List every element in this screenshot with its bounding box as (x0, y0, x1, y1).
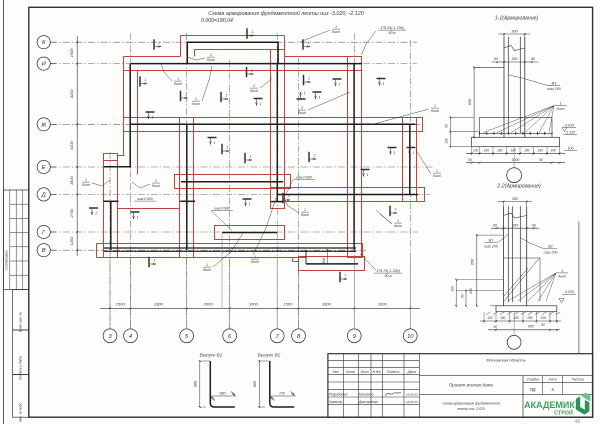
svg-text:бшт: бшт (250, 89, 258, 93)
svg-text:1: 1 (308, 41, 310, 45)
svg-text:Подпись и дата: Подпись и дата (19, 356, 23, 380)
shag labels (134, 176, 315, 231)
red strip V wall (97, 244, 363, 262)
svg-text:1: 1 (226, 94, 228, 98)
detail 1-1 bottom bar dots (480, 132, 553, 135)
svg-text:18.09.23: 18.09.23 (406, 393, 418, 397)
svg-text:Е: Е (42, 165, 46, 171)
svg-text:шаг t=900: шаг t=900 (214, 207, 230, 211)
svg-text:180: 180 (500, 316, 506, 320)
detail 1-1 title (495, 16, 539, 22)
elevation label top right (362, 26, 407, 55)
svg-text:60: 60 (494, 57, 498, 61)
elevation label bottom right (360, 254, 402, 278)
red strip axis9 (348, 57, 362, 258)
svg-text:-2.120: -2.120 (565, 131, 575, 135)
svg-text:В1: В1 (489, 239, 494, 243)
horizontal grid axis lines (51, 42, 435, 250)
wall axis7 (276, 64, 278, 202)
vypusk B2 shape (270, 361, 295, 407)
svg-text:720: 720 (279, 391, 285, 395)
svg-text:1500: 1500 (283, 302, 293, 307)
svg-text:бшт: бшт (431, 109, 439, 113)
svg-text:60: 60 (493, 325, 497, 329)
detail 2-2 left stacked dims (451, 279, 503, 307)
svg-text:1: 1 (367, 173, 369, 177)
left margin approval table (4, 190, 29, 290)
svg-text:100: 100 (541, 316, 547, 320)
svg-text:1: 1 (304, 208, 306, 212)
dim 500 at B step (322, 249, 328, 265)
svg-text:180: 180 (484, 149, 490, 153)
svg-text:Изм: Изм (333, 370, 340, 374)
vypusk B1 dims (194, 360, 236, 408)
svg-text:3300: 3300 (249, 302, 259, 307)
wall cap axis7 bottom (271, 201, 284, 203)
wall V lower offset (306, 250, 358, 264)
detail 2-2 hatching (486, 312, 561, 315)
detail 2-2 rebar bars (508, 206, 520, 302)
svg-text:бшт: бшт (207, 58, 215, 62)
svg-text:бшт: бшт (82, 183, 90, 187)
svg-text:1800: 1800 (69, 175, 74, 185)
svg-text:178.75(-1.290): 178.75(-1.290) (376, 269, 400, 273)
svg-text:1: 1 (436, 169, 438, 173)
title block staff rows (329, 393, 418, 405)
svg-text:60: 60 (493, 223, 497, 227)
detail 1-1 rebar bars (508, 37, 520, 134)
svg-text:бшт: бшт (174, 82, 182, 86)
svg-text:1: 1 (301, 106, 303, 110)
svg-text:1: 1 (413, 151, 415, 155)
svg-text:1: 1 (214, 141, 216, 145)
svg-text:4200: 4200 (69, 89, 74, 99)
svg-text:Выпуск В1: Выпуск В1 (200, 353, 223, 358)
svg-text:бшт: бшт (557, 107, 565, 111)
svg-text:300: 300 (451, 286, 455, 292)
red strip axis7 (271, 50, 285, 209)
svg-text:К: К (42, 40, 46, 46)
detail 1-1 footing (472, 137, 560, 146)
svg-text:1: 1 (152, 116, 154, 120)
drawing title text (201, 10, 364, 24)
svg-text:1: 1 (308, 77, 310, 81)
svg-text:1: 1 (304, 92, 306, 96)
svg-text:Лист: Лист (547, 378, 557, 382)
detail 2-2 title (496, 184, 541, 190)
svg-text:бшт: бшт (298, 111, 306, 115)
stage list cells (523, 376, 593, 395)
detail 2-2 bent bars (504, 258, 540, 301)
svg-text:18.09.23: 18.09.23 (406, 400, 418, 404)
svg-text:бшт: бшт (301, 213, 309, 217)
svg-text:3900: 3900 (322, 302, 332, 307)
svg-text:1: 1 (227, 146, 229, 150)
svg-text:Схема армирования фундаментной: Схема армирования фундаментной (442, 402, 500, 406)
detail 2-2 footing (490, 306, 557, 312)
svg-text:Проект жилого дома: Проект жилого дома (449, 383, 494, 388)
column divider line x579 (578, 222, 580, 354)
svg-text:бшт: бшт (192, 102, 200, 106)
svg-text:шаг 200: шаг 200 (484, 244, 498, 248)
wall cap axis5 top (180, 200, 195, 202)
svg-text:бшт: бшт (332, 30, 340, 34)
svg-text:50: 50 (445, 124, 449, 128)
red strip K wall (181, 36, 285, 57)
wall axis10 (409, 124, 411, 194)
detail 1-1 left dim 650 (468, 66, 504, 138)
svg-text:60: 60 (532, 223, 536, 227)
signature (385, 392, 401, 396)
wall step E (104, 166, 131, 168)
detail 1-1 label 1 6sht with fan (483, 102, 567, 133)
svg-text:Листов: Листов (571, 378, 584, 382)
wall D axis (277, 194, 418, 196)
detail 2-2 elevation -3.020 (559, 290, 576, 302)
detail 1-1 dim 60 180 60 (492, 57, 539, 63)
svg-text:Московская область: Московская область (486, 358, 525, 363)
detail 2-2 left dim 650 (471, 234, 504, 307)
svg-text:180: 180 (512, 223, 518, 227)
left margin box podpis (13, 330, 29, 380)
svg-text:Михеенко: Михеенко (359, 393, 374, 397)
title block header texts (333, 370, 417, 374)
left dimension line (69, 36, 78, 256)
vypusk B2 dims (253, 360, 295, 408)
svg-text:880: 880 (253, 381, 257, 387)
svg-text:60: 60 (531, 57, 535, 61)
svg-text:100: 100 (487, 316, 493, 320)
extension lines bottom (110, 233, 410, 329)
wall G axis (222, 232, 277, 234)
red strip axis3 (104, 154, 118, 258)
svg-text:1: 1 (252, 30, 254, 34)
wall axis4 (129, 64, 131, 167)
svg-text:1: 1 (397, 219, 399, 223)
svg-text:А3: А3 (573, 419, 580, 424)
red strip axis5 (180, 118, 194, 258)
svg-text:6шт: 6шт (433, 174, 441, 178)
svg-text:0.000=180,04: 0.000=180,04 (201, 18, 233, 24)
wall K axis (187, 41, 278, 43)
svg-text:СТРОЙ: СТРОЙ (554, 409, 573, 417)
svg-text:4: 4 (129, 334, 132, 340)
svg-text:1: 1 (339, 83, 341, 87)
detail 1-1 top dim 300 (499, 29, 531, 37)
svg-text:100: 100 (551, 149, 557, 153)
vypusk B1 title (200, 353, 223, 358)
svg-text:Взам. инв. №: Взам. инв. № (19, 312, 23, 332)
detail 2-2 dim 60 180 60 (491, 223, 539, 229)
wall K right end vertical (277, 41, 279, 63)
svg-text:Лист: Лист (359, 370, 369, 374)
red strip mid wall y181 (175, 175, 291, 189)
bottom dimension line (100, 302, 420, 310)
svg-text:Схема армирования фундаментной: Схема армирования фундаментной ленты низ… (208, 10, 363, 17)
svg-text:Заказчик: Заказчик (329, 400, 343, 404)
svg-text:N док: N док (373, 370, 382, 374)
svg-text:4шт: 4шт (558, 275, 566, 279)
svg-text:Дмитриенко: Дмитриенко (358, 400, 378, 404)
wall axis5 (186, 124, 188, 250)
svg-text:3900: 3900 (378, 302, 388, 307)
svg-text:180: 180 (527, 316, 533, 320)
svg-text:Выпуск В2: Выпуск В2 (258, 353, 281, 358)
svg-text:250: 250 (469, 288, 473, 295)
wall Zh axis (131, 123, 416, 125)
red strip axis4 (124, 57, 138, 175)
red strip Zh wall (124, 118, 423, 132)
red strip I wall (124, 57, 362, 71)
svg-text:1: 1 (253, 84, 255, 88)
detail 2-2 label B1 (484, 234, 508, 248)
svg-text:300: 300 (511, 29, 518, 33)
svg-text:3000: 3000 (204, 302, 214, 307)
svg-text:Согласовано: Согласовано (4, 250, 8, 270)
svg-text:1: 1 (85, 178, 87, 182)
svg-text:180: 180 (514, 316, 520, 320)
detail 2-2 bottom dims row1 (480, 312, 561, 323)
svg-text:880: 880 (194, 381, 198, 387)
vypusk B1 shape (210, 361, 235, 407)
svg-text:100: 100 (445, 138, 449, 144)
svg-text:1: 1 (434, 104, 436, 108)
detail 1-1 mesh zone (480, 117, 553, 137)
svg-text:РД: РД (530, 387, 536, 392)
plan annotation labels (161, 64, 182, 86)
title block left columns (328, 354, 420, 418)
svg-text:1: 1 (154, 259, 156, 263)
svg-text:Дата: Дата (406, 370, 416, 374)
detail 2-2 wall (504, 206, 527, 305)
svg-text:бшт: бшт (251, 260, 259, 264)
svg-text:100: 100 (568, 147, 574, 151)
svg-text:3900: 3900 (154, 302, 164, 307)
svg-text:1: 1 (137, 216, 139, 220)
svg-text:1: 1 (210, 53, 212, 57)
svg-text:1000: 1000 (512, 158, 520, 162)
section and rebar marks on plan (154, 39, 161, 49)
svg-text:-3.020: -3.020 (564, 290, 574, 294)
wall V axis (104, 248, 356, 251)
svg-text:180: 180 (511, 57, 517, 61)
svg-text:Д: Д (41, 192, 46, 198)
title block right section (419, 358, 592, 418)
detail 1-1 mesh shag label (564, 147, 577, 151)
detail 1-1 left small dims (445, 116, 480, 147)
svg-text:1: 1 (319, 96, 321, 100)
wall axis3 lower (110, 201, 112, 250)
svg-text:650: 650 (468, 98, 472, 105)
svg-text:500: 500 (322, 258, 326, 264)
svg-text:1: 1 (383, 82, 385, 86)
svg-text:180: 180 (538, 149, 544, 153)
svg-text:3100: 3100 (69, 140, 74, 150)
svg-text:50: 50 (468, 158, 472, 162)
detail 2-2 bottom dims row2 (488, 323, 560, 331)
svg-text:шаг t=900: шаг t=900 (137, 197, 153, 201)
svg-text:шаг 200: шаг 200 (544, 250, 558, 254)
detail 1-1 wall (504, 37, 525, 138)
svg-text:1: 1 (185, 93, 187, 97)
svg-text:100: 100 (473, 149, 479, 153)
svg-text:В1: В1 (552, 82, 557, 86)
svg-text:Разработал: Разработал (329, 393, 348, 397)
svg-text:1-1(Армирование): 1-1(Армирование) (495, 16, 539, 22)
svg-text:580: 580 (220, 391, 226, 395)
svg-text:шаг 200: шаг 200 (547, 87, 561, 91)
svg-text:1: 1 (155, 179, 157, 183)
svg-text:ленты низ -3.020: ленты низ -3.020 (456, 407, 485, 411)
svg-text:2700: 2700 (69, 208, 74, 219)
svg-text:В: В (42, 248, 46, 254)
svg-text:50: 50 (460, 294, 464, 298)
svg-text:1: 1 (561, 269, 563, 273)
svg-text:-3.020: -3.020 (564, 123, 574, 127)
wall axis9 (353, 64, 355, 250)
detail 2-2 label 1 4sht (508, 269, 568, 301)
svg-text:1: 1 (559, 102, 561, 106)
detail 1-1 bottom dims row1 (466, 147, 565, 155)
svg-text:Ж: Ж (40, 122, 47, 128)
svg-text:1: 1 (250, 155, 252, 159)
wall cap axis3 top (104, 200, 119, 202)
svg-text:50: 50 (541, 323, 545, 327)
svg-text:Подпись: Подпись (387, 370, 400, 374)
svg-text:1200: 1200 (69, 236, 74, 246)
svg-text:1: 1 (177, 77, 179, 81)
svg-text:Стадия: Стадия (527, 378, 540, 382)
axis circles left K..V (37, 36, 56, 257)
svg-text:2: 2 (313, 154, 316, 158)
svg-text:1: 1 (145, 78, 147, 82)
red strip V-lower wall (299, 257, 365, 271)
svg-text:1: 1 (260, 102, 262, 106)
wall mid y181 (181, 181, 283, 183)
svg-text:1500: 1500 (116, 302, 126, 307)
wall K left end vertical (186, 41, 188, 63)
svg-text:1: 1 (345, 274, 347, 278)
svg-text:4шт: 4шт (394, 224, 402, 228)
svg-text:1: 1 (335, 25, 337, 29)
A3 label (573, 419, 580, 424)
svg-text:2-2(Армирование): 2-2(Армирование) (496, 184, 541, 190)
svg-text:1: 1 (195, 97, 197, 101)
svg-text:178.25(-1.795): 178.25(-1.795) (380, 26, 404, 30)
detail 2-2 axis circle (507, 312, 521, 349)
svg-text:1: 1 (254, 255, 256, 259)
svg-text:1: 1 (159, 41, 161, 45)
svg-text:650: 650 (528, 324, 534, 328)
svg-text:50-в: 50-в (388, 31, 395, 35)
detail 1-1 label B1 (509, 75, 561, 91)
svg-text:1500: 1500 (69, 48, 74, 58)
left margin box inv (13, 375, 29, 422)
svg-text:1: 1 (249, 203, 251, 207)
red strip D wall (271, 188, 425, 202)
svg-text:1: 1 (206, 263, 208, 267)
detail 2-2 label B2 (521, 238, 558, 254)
svg-text:шаг t=900: шаг t=900 (296, 176, 312, 180)
wall I axis (131, 63, 363, 65)
svg-text:1: 1 (394, 151, 396, 155)
svg-text:бшт: бшт (152, 184, 160, 188)
svg-text:180: 180 (497, 149, 503, 153)
logo akademik stroy (524, 393, 590, 417)
vertical grid axis lines (110, 33, 410, 329)
title block frame (328, 354, 593, 418)
detail 1-1 axis circle (507, 147, 522, 183)
svg-text:300: 300 (512, 197, 519, 201)
svg-text:50: 50 (539, 158, 543, 162)
svg-text:50-в: 50-в (384, 274, 391, 278)
svg-text:10: 10 (407, 334, 414, 340)
red inner top room left-mid (118, 208, 180, 210)
svg-text:1: 1 (95, 212, 97, 216)
detail 1-1 elevation marks (562, 123, 577, 134)
svg-text:180: 180 (511, 149, 517, 153)
red strip G wall (215, 226, 285, 240)
svg-text:180: 180 (524, 149, 530, 153)
red K wall vertical connectors (195, 50, 271, 57)
svg-text:Колич: Колич (346, 370, 355, 374)
svg-text:1: 1 (251, 69, 253, 73)
svg-text:2: 2 (394, 208, 397, 212)
svg-text:Инв. № подл.: Инв. № подл. (19, 402, 23, 422)
svg-text:бшт: бшт (203, 268, 211, 272)
vypusk B2 title (258, 353, 281, 358)
detail 1-1 bottom dims row2 (466, 158, 565, 164)
svg-text:2: 2 (287, 195, 290, 199)
detail 2-2 top dim 300 (498, 197, 532, 207)
red strip axis10 (403, 118, 417, 202)
left margin box vzam (13, 290, 29, 332)
axis circles bottom 3..10 (103, 329, 417, 343)
bottom drawing name (442, 402, 500, 412)
red step connectors axis3-axis4 (104, 156, 125, 161)
svg-text:АКАДЕМИК: АКАДЕМИК (524, 400, 575, 410)
svg-text:650: 650 (471, 258, 475, 265)
